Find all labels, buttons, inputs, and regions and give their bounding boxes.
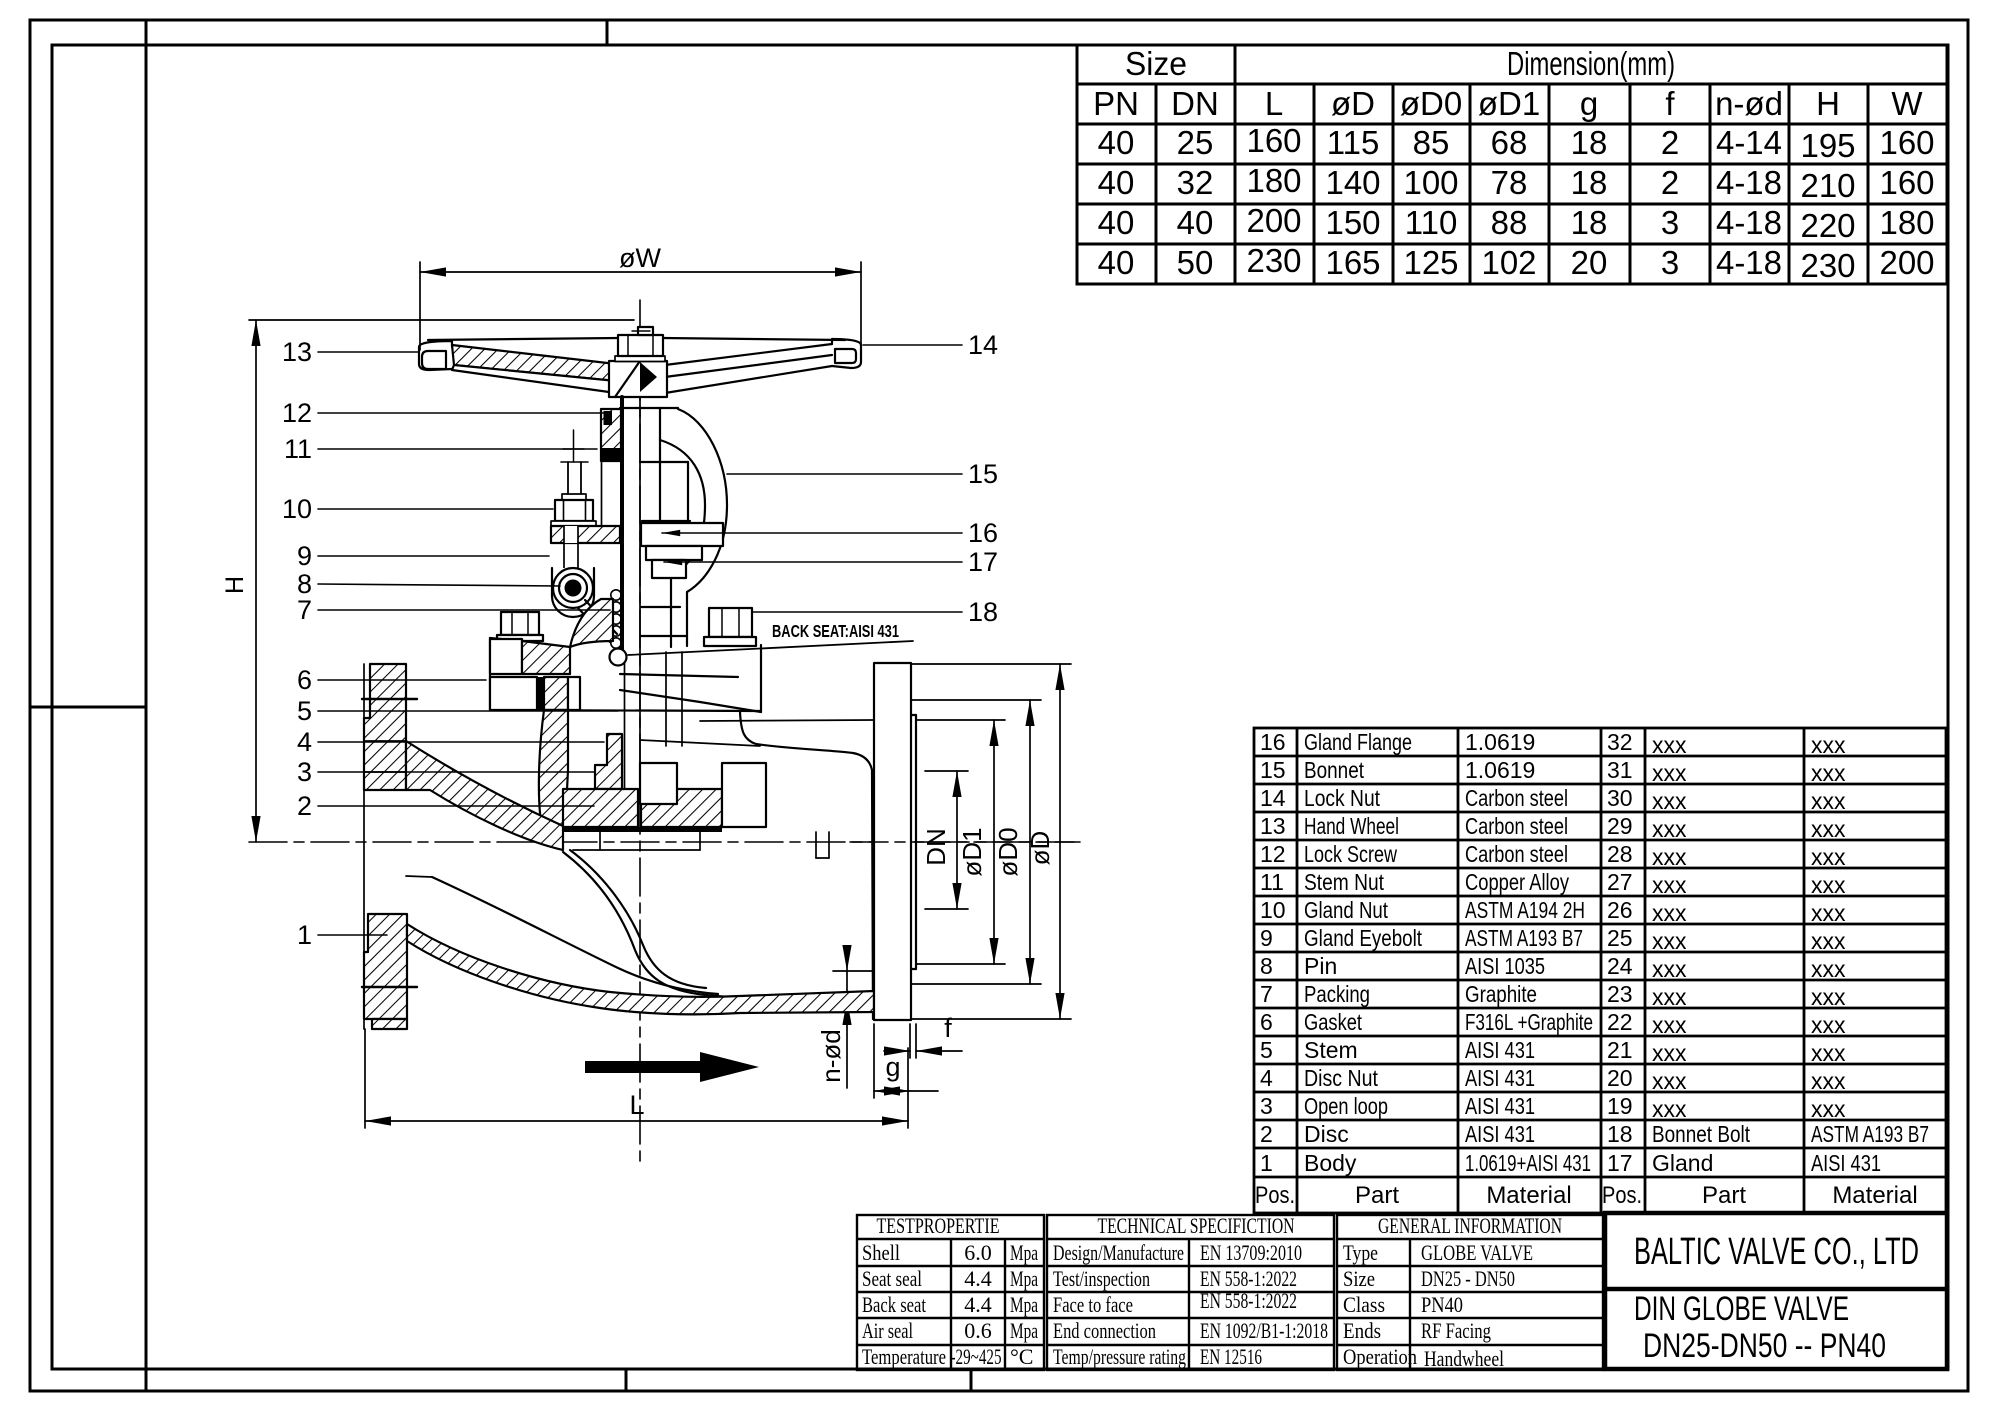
svg-text:xxx: xxx (1652, 984, 1687, 1010)
svg-text:140: 140 (1325, 164, 1380, 201)
callout 5 (297, 696, 618, 726)
svg-text:Mpa: Mpa (1010, 1292, 1038, 1317)
svg-text:18: 18 (968, 597, 998, 627)
svg-text:Material: Material (1832, 1182, 1917, 1209)
svg-text:102: 102 (1481, 244, 1536, 281)
pin boss (552, 568, 594, 617)
svg-text:4.4: 4.4 (964, 1266, 992, 1291)
flange bolt line tick top (362, 698, 417, 700)
svg-text:23: 23 (1607, 981, 1633, 1007)
dim OD0 dimension (911, 700, 1041, 984)
svg-text:AISI 431: AISI 431 (1465, 1121, 1535, 1147)
svg-text:40: 40 (1098, 204, 1135, 241)
svg-text:4-18: 4-18 (1716, 204, 1782, 241)
gland eyebolt 9 shank (561, 430, 588, 494)
svg-text:1.0619+AISI 431: 1.0619+AISI 431 (1465, 1150, 1591, 1176)
svg-text:11: 11 (284, 434, 312, 464)
svg-text:30: 30 (1607, 785, 1633, 811)
svg-text:1: 1 (1260, 1150, 1273, 1176)
handwheel right spoke (665, 344, 832, 393)
callout 10 (282, 494, 553, 524)
svg-text:Air seal: Air seal (862, 1318, 913, 1343)
test properties table (857, 1215, 1044, 1370)
svg-text:18: 18 (1571, 164, 1608, 201)
svg-text:165: 165 (1325, 244, 1380, 281)
svg-text:4-18: 4-18 (1716, 244, 1782, 281)
svg-text:Temp/pressure rating: Temp/pressure rating (1053, 1344, 1186, 1369)
svg-text:xxx: xxx (1652, 900, 1687, 926)
svg-text:2: 2 (1260, 1121, 1273, 1147)
svg-text:13: 13 (282, 337, 312, 367)
disc right (641, 789, 722, 827)
bonnet flange 15 (490, 607, 761, 712)
title block (1605, 1213, 1947, 1369)
svg-text:Part: Part (1702, 1182, 1746, 1209)
svg-text:xxx: xxx (1652, 788, 1687, 814)
svg-text:xxx: xxx (1652, 1096, 1687, 1122)
svg-text:40: 40 (1177, 204, 1214, 241)
svg-text:15: 15 (1260, 757, 1286, 783)
svg-text:g: g (885, 1052, 900, 1082)
dim OD1 dimension (916, 720, 1005, 964)
svg-text:H: H (221, 576, 249, 594)
handwheel right rim cap (832, 339, 861, 368)
svg-text:200: 200 (1246, 202, 1301, 239)
stem (622, 397, 640, 792)
svg-text:Pos.: Pos. (1602, 1182, 1642, 1209)
svg-text:16: 16 (1260, 729, 1286, 755)
dim n-Od dimension (816, 945, 875, 1088)
dim OD dimension (874, 664, 1071, 1019)
svg-text:5: 5 (297, 696, 312, 726)
svg-text:øD: øD (1331, 85, 1375, 122)
dim DN dimension (921, 771, 968, 909)
svg-text:Gland Flange: Gland Flange (1304, 729, 1412, 755)
svg-text:f: f (1665, 85, 1675, 122)
svg-text:50: 50 (1177, 244, 1214, 281)
dim OW dimension (420, 243, 861, 350)
svg-text:Type: Type (1343, 1240, 1378, 1265)
svg-text:End connection: End connection (1053, 1318, 1156, 1343)
guide sleeve (665, 652, 667, 746)
handwheel hub (609, 361, 667, 397)
centering mark left (30, 706, 146, 709)
svg-text:Size: Size (1343, 1266, 1375, 1291)
svg-text:32: 32 (1607, 729, 1633, 755)
svg-text:1.0619: 1.0619 (1465, 729, 1535, 755)
svg-text:F316L +Graphite: F316L +Graphite (1465, 1009, 1593, 1035)
svg-text:Ends: Ends (1343, 1318, 1381, 1343)
svg-text:12: 12 (282, 398, 312, 428)
svg-text:26: 26 (1607, 897, 1633, 923)
svg-text:xxx: xxx (1811, 900, 1846, 926)
svg-text:9: 9 (1260, 925, 1273, 951)
svg-text:L: L (629, 1090, 644, 1120)
svg-text:31: 31 (1607, 757, 1633, 783)
svg-text:Stem Nut: Stem Nut (1304, 869, 1384, 895)
lock screw 12 + stem nut 11 packing column (601, 409, 621, 530)
svg-text:Design/Manufacture: Design/Manufacture (1053, 1240, 1184, 1265)
svg-text:Part: Part (1355, 1182, 1399, 1209)
svg-text:Test/inspection: Test/inspection (1053, 1266, 1150, 1291)
svg-text:220: 220 (1800, 207, 1855, 244)
svg-text:ASTM A193 B7: ASTM A193 B7 (1811, 1121, 1929, 1147)
callout 4 (297, 727, 604, 757)
svg-text:6: 6 (297, 665, 312, 695)
pin boss strut (578, 600, 617, 642)
svg-text:17: 17 (1607, 1150, 1633, 1176)
svg-text:Carbon steel: Carbon steel (1465, 785, 1568, 811)
svg-text:AISI 431: AISI 431 (1465, 1065, 1535, 1091)
svg-text:18: 18 (1571, 124, 1608, 161)
svg-text:xxx: xxx (1652, 872, 1687, 898)
bore curve below axis (406, 876, 718, 994)
right flange (874, 663, 916, 1020)
svg-text:xxx: xxx (1652, 816, 1687, 842)
gland flange plate (551, 526, 620, 543)
svg-text:Dimension(mm): Dimension(mm) (1507, 45, 1675, 82)
svg-text:20: 20 (1571, 244, 1608, 281)
svg-text:ASTM A193 B7: ASTM A193 B7 (1465, 925, 1583, 951)
svg-text:xxx: xxx (1652, 760, 1687, 786)
pin 8 (553, 568, 593, 608)
handwheel rim far edge lines (428, 338, 619, 340)
svg-text:xxx: xxx (1811, 732, 1846, 758)
svg-text:85: 85 (1413, 124, 1450, 161)
bonnet bolt 18 right (704, 608, 756, 646)
svg-text:14: 14 (968, 330, 998, 360)
centerline stem axis (639, 300, 641, 1168)
svg-text:15: 15 (968, 459, 998, 489)
svg-text:Packing: Packing (1304, 981, 1370, 1007)
svg-text:Temperature: Temperature (862, 1344, 946, 1369)
callout 9 (297, 541, 549, 571)
back seat note (628, 621, 913, 655)
svg-text:Body: Body (1304, 1150, 1357, 1176)
bonnet bolt left (497, 612, 543, 641)
svg-text:xxx: xxx (1652, 928, 1687, 954)
disc nut 4 (595, 734, 622, 789)
centering mark top (606, 20, 609, 45)
disc 2 left (563, 789, 638, 827)
svg-text:3: 3 (297, 757, 312, 787)
svg-text:BALTIC VALVE CO., LTD: BALTIC VALVE CO., LTD (1634, 1231, 1919, 1273)
centerline overlays (850, 841, 1080, 843)
svg-text:160: 160 (1879, 124, 1934, 161)
svg-text:24: 24 (1607, 953, 1633, 979)
svg-text:210: 210 (1800, 167, 1855, 204)
handwheel left rim cap (419, 341, 452, 370)
svg-text:3: 3 (1661, 204, 1679, 241)
svg-text:GENERAL INFORMATION: GENERAL INFORMATION (1378, 1213, 1562, 1238)
callout 7 (297, 595, 610, 625)
svg-text:Operation: Operation (1343, 1344, 1417, 1369)
svg-text:7: 7 (1260, 981, 1273, 1007)
svg-text:Copper Alloy: Copper Alloy (1465, 869, 1569, 895)
svg-text:Back seat: Back seat (862, 1292, 926, 1317)
svg-text:xxx: xxx (1811, 788, 1846, 814)
svg-text:88: 88 (1491, 204, 1528, 241)
upper body wall band (406, 741, 563, 850)
svg-text:Lock Nut: Lock Nut (1304, 785, 1381, 811)
svg-text:3: 3 (1260, 1093, 1273, 1119)
flange bolt line tick bottom (362, 986, 417, 988)
svg-text:25: 25 (1607, 925, 1633, 951)
svg-text:Shell: Shell (862, 1240, 900, 1265)
svg-text:2: 2 (1661, 164, 1679, 201)
flow arrow (585, 1052, 759, 1082)
svg-text:18: 18 (1571, 204, 1608, 241)
centerline pipe axis (249, 841, 1080, 843)
svg-text:4-14: 4-14 (1716, 124, 1782, 161)
svg-text:2: 2 (297, 791, 312, 821)
svg-text:160: 160 (1246, 122, 1301, 159)
yoke bushing 16 (641, 523, 723, 546)
seat lip steps (573, 832, 829, 858)
svg-text:øW: øW (619, 243, 661, 273)
svg-text:AISI 431: AISI 431 (1811, 1150, 1881, 1176)
svg-text:Lock Screw: Lock Screw (1304, 841, 1397, 867)
svg-text:TESTPROPERTIE: TESTPROPERTIE (877, 1213, 1000, 1238)
svg-text:EN 13709:2010: EN 13709:2010 (1200, 1240, 1302, 1265)
dimension table top right (1077, 45, 1947, 284)
svg-text:150: 150 (1325, 204, 1380, 241)
callout 1 (297, 920, 387, 950)
svg-text:Class: Class (1343, 1292, 1385, 1317)
svg-text:DN: DN (1171, 85, 1219, 122)
dim H dimension (221, 320, 634, 842)
svg-text:DIN GLOBE VALVE: DIN GLOBE VALVE (1634, 1290, 1849, 1328)
svg-text:Face to face: Face to face (1053, 1292, 1133, 1317)
upper left flange 1 (364, 664, 406, 790)
svg-text:200: 200 (1879, 244, 1934, 281)
svg-text:110: 110 (1405, 204, 1458, 241)
svg-text:5: 5 (1260, 1037, 1273, 1063)
svg-text:øD1: øD1 (957, 827, 987, 876)
svg-text:Material: Material (1486, 1182, 1571, 1209)
gland 17 section (490, 599, 613, 710)
svg-text:GLOBE VALVE: GLOBE VALVE (1421, 1240, 1533, 1265)
filing margin line (145, 20, 148, 1391)
stem disc joint (621, 792, 640, 798)
VALVE DRAWING (221, 243, 1080, 1168)
svg-text:g: g (1580, 85, 1598, 122)
svg-text:Seat seal: Seat seal (862, 1266, 922, 1291)
svg-text:øD1: øD1 (1478, 85, 1540, 122)
svg-text:14: 14 (1260, 785, 1286, 811)
svg-text:°C: °C (1010, 1344, 1033, 1369)
svg-text:øD0: øD0 (1400, 85, 1462, 122)
svg-text:Stem: Stem (1304, 1037, 1358, 1063)
svg-text:1.0619: 1.0619 (1465, 757, 1535, 783)
svg-text:22: 22 (1607, 1009, 1633, 1035)
svg-text:12: 12 (1260, 841, 1286, 867)
svg-text:21: 21 (1607, 1037, 1633, 1063)
svg-text:PN40: PN40 (1421, 1292, 1463, 1317)
dim f dimension (884, 1013, 962, 1058)
callout 17 (664, 547, 998, 577)
svg-text:0.6: 0.6 (964, 1318, 992, 1343)
svg-text:9: 9 (297, 541, 312, 571)
callout 14 (863, 330, 998, 360)
svg-text:AISI 431: AISI 431 (1465, 1037, 1535, 1063)
eyebolt lower shank (564, 526, 578, 568)
svg-text:xxx: xxx (1811, 956, 1846, 982)
svg-text:EN 558-1:2022: EN 558-1:2022 (1200, 1288, 1297, 1313)
svg-text:DN25-DN50 -- PN40: DN25-DN50 -- PN40 (1643, 1327, 1886, 1365)
dim L dimension (365, 1029, 908, 1128)
dim g dimension (874, 1024, 938, 1098)
svg-text:78: 78 (1491, 164, 1528, 201)
svg-text:xxx: xxx (1652, 1012, 1687, 1038)
svg-text:BACK SEAT:AISI 431: BACK SEAT:AISI 431 (772, 621, 899, 641)
svg-text:Disc Nut: Disc Nut (1304, 1065, 1379, 1091)
gasket 6 (537, 677, 544, 711)
svg-text:xxx: xxx (1811, 816, 1846, 842)
svg-text:32: 32 (1177, 164, 1214, 201)
svg-text:xxx: xxx (1811, 844, 1846, 870)
svg-text:19: 19 (1607, 1093, 1633, 1119)
svg-text:10: 10 (282, 494, 312, 524)
svg-text:xxx: xxx (1811, 1040, 1846, 1066)
svg-text:Graphite: Graphite (1465, 981, 1537, 1007)
handwheel left spoke sectioned (452, 345, 616, 381)
svg-text:68: 68 (1491, 124, 1528, 161)
svg-text:4: 4 (297, 727, 312, 757)
svg-text:Carbon steel: Carbon steel (1465, 813, 1568, 839)
svg-text:230: 230 (1246, 242, 1301, 279)
svg-text:20: 20 (1607, 1065, 1633, 1091)
centering mark bottom 1 (625, 1369, 628, 1391)
svg-text:160: 160 (1879, 164, 1934, 201)
svg-text:Gland: Gland (1652, 1150, 1713, 1176)
svg-text:PN: PN (1093, 85, 1139, 122)
lower left flange (364, 914, 407, 1029)
svg-text:8: 8 (1260, 953, 1273, 979)
callout 13 (282, 337, 419, 367)
svg-text:xxx: xxx (1811, 760, 1846, 786)
svg-text:2: 2 (1661, 124, 1679, 161)
callout 2 (297, 791, 594, 821)
packing rings 7 (611, 590, 621, 648)
svg-text:RF Facing: RF Facing (1421, 1318, 1491, 1343)
svg-text:4: 4 (1260, 1065, 1273, 1091)
svg-text:DN: DN (921, 828, 951, 866)
svg-text:Gasket: Gasket (1304, 1009, 1362, 1035)
svg-text:6: 6 (1260, 1009, 1273, 1035)
svg-text:Hand Wheel: Hand Wheel (1304, 813, 1399, 839)
svg-text:1: 1 (297, 920, 312, 950)
svg-text:xxx: xxx (1811, 928, 1846, 954)
svg-text:18: 18 (1607, 1121, 1633, 1147)
centering mark bottom 2 (970, 1369, 973, 1391)
svg-text:125: 125 (1403, 244, 1458, 281)
svg-text:H: H (1816, 85, 1840, 122)
svg-text:Pos.: Pos. (1255, 1182, 1295, 1209)
svg-text:Size: Size (1125, 45, 1187, 82)
lock nut 14 (615, 327, 665, 362)
svg-text:DN25 - DN50: DN25 - DN50 (1421, 1266, 1515, 1291)
svg-text:3: 3 (1661, 244, 1679, 281)
bonnet neck hatched (544, 677, 568, 710)
callout 18 (752, 597, 998, 627)
svg-text:40: 40 (1098, 124, 1135, 161)
svg-text:40: 40 (1098, 164, 1135, 201)
svg-text:115: 115 (1327, 124, 1380, 161)
gland 17 (646, 546, 702, 560)
callout 6 (297, 665, 486, 695)
svg-text:Gland Eyebolt: Gland Eyebolt (1304, 925, 1422, 951)
body neck curve right (740, 712, 873, 1019)
svg-text:Mpa: Mpa (1010, 1318, 1038, 1343)
svg-text:11: 11 (1260, 869, 1284, 895)
svg-text:xxx: xxx (1811, 1096, 1846, 1122)
svg-text:AISI 431: AISI 431 (1465, 1093, 1535, 1119)
svg-text:øD0: øD0 (993, 827, 1023, 876)
svg-text:xxx: xxx (1811, 872, 1846, 898)
svg-text:4.4: 4.4 (964, 1292, 992, 1317)
svg-text:xxx: xxx (1652, 732, 1687, 758)
svg-text:Bonnet Bolt: Bonnet Bolt (1652, 1121, 1751, 1147)
body flange top edge right (874, 700, 911, 702)
technical specification table (1047, 1215, 1334, 1370)
svg-text:17: 17 (968, 547, 998, 577)
general information table (1337, 1215, 1603, 1370)
disc guide right (640, 763, 677, 804)
svg-text:TECHNICAL SPECIFICTION: TECHNICAL SPECIFICTION (1098, 1213, 1295, 1238)
yoke arch 15 (660, 409, 727, 647)
svg-text:xxx: xxx (1811, 1012, 1846, 1038)
callout 3 (297, 757, 594, 787)
svg-text:180: 180 (1246, 162, 1301, 199)
svg-text:29: 29 (1607, 813, 1633, 839)
svg-text:ASTM A194 2H: ASTM A194 2H (1465, 897, 1585, 923)
svg-text:16: 16 (968, 518, 998, 548)
seat right white (722, 763, 766, 827)
callout 11 (284, 434, 597, 464)
svg-text:Mpa: Mpa (1010, 1240, 1038, 1265)
svg-text:Mpa: Mpa (1010, 1266, 1038, 1291)
svg-text:230: 230 (1800, 247, 1855, 284)
svg-text:Open loop: Open loop (1304, 1093, 1388, 1119)
svg-text:n-ød: n-ød (1715, 85, 1783, 122)
gland nut 10 (551, 494, 596, 527)
body bowl curve left (563, 850, 766, 998)
svg-text:40: 40 (1098, 244, 1135, 281)
callout 15 (727, 459, 998, 489)
lower body wall band (407, 924, 874, 1014)
svg-text:EN 1092/B1-1:2018: EN 1092/B1-1:2018 (1200, 1318, 1328, 1343)
svg-text:f: f (944, 1013, 952, 1043)
svg-text:28: 28 (1607, 841, 1633, 867)
svg-text:27: 27 (1607, 869, 1633, 895)
callout 16 (662, 518, 998, 548)
svg-text:L: L (1265, 85, 1283, 122)
svg-text:Gland Nut: Gland Nut (1304, 897, 1388, 923)
yoke column (620, 408, 690, 524)
svg-text:Carbon steel: Carbon steel (1465, 841, 1568, 867)
svg-text:xxx: xxx (1811, 984, 1846, 1010)
svg-text:xxx: xxx (1652, 1068, 1687, 1094)
svg-text:195: 195 (1800, 127, 1855, 164)
svg-text:4-18: 4-18 (1716, 164, 1782, 201)
svg-text:EN 12516: EN 12516 (1200, 1344, 1262, 1369)
svg-text:øD: øD (1025, 831, 1055, 866)
svg-text:AISI 1035: AISI 1035 (1465, 953, 1545, 979)
svg-text:n-ød: n-ød (816, 1029, 846, 1082)
svg-text:7: 7 (297, 595, 312, 625)
svg-text:Bonnet: Bonnet (1304, 757, 1364, 783)
